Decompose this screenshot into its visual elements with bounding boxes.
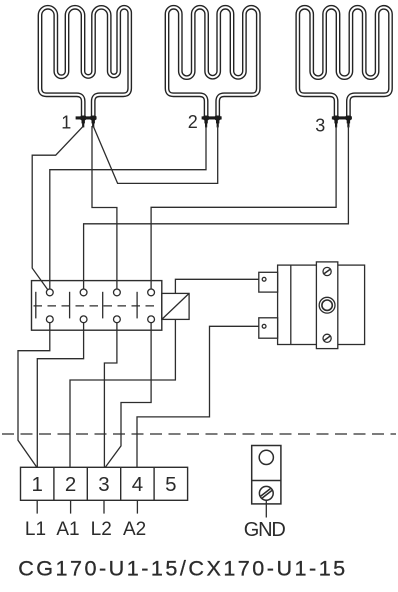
svg-text:2: 2 [65, 473, 76, 496]
svg-text:1: 1 [61, 112, 71, 132]
contactor coil [162, 293, 189, 319]
svg-text:2: 2 [188, 112, 198, 132]
ground leader line [265, 500, 267, 517]
svg-text:L2: L2 [91, 519, 112, 540]
contactor bottom terminal B3 [114, 316, 121, 323]
wire: contactor B3 to terminal 3 (L2) [104, 323, 117, 468]
contact bar pole 2 [69, 292, 71, 319]
heating element 2 [167, 7, 258, 119]
thermostat top screw [323, 267, 331, 275]
contactor K1 body [32, 281, 162, 331]
thermostat terminal tab 2 [259, 318, 278, 338]
wire net C: element 1 right pin to element 2 right pin [93, 126, 218, 183]
wire net B: contactor T1 up to element 2 left pin [50, 126, 206, 289]
contactor top terminal T1 [46, 289, 53, 296]
svg-text:3: 3 [315, 116, 325, 136]
contactor top terminal T2 [80, 289, 87, 296]
dashed panel separator line [2, 433, 396, 435]
thermostat body [278, 265, 365, 344]
thermostat bottom screw [323, 334, 331, 342]
svg-text:L1: L1 [25, 519, 46, 540]
contactor bottom terminal B4 [148, 316, 155, 323]
ground terminal block [252, 446, 281, 504]
svg-text:CG170-U1-15/CX170-U1-15: CG170-U1-15/CX170-U1-15 [18, 555, 345, 580]
heating element 3 [298, 7, 391, 119]
svg-text:5: 5 [165, 473, 176, 496]
svg-text:A2: A2 [123, 519, 146, 540]
contact bar pole 1 [35, 292, 37, 319]
thermostat terminal tab 1 [259, 272, 278, 292]
heating element 1 [40, 7, 130, 119]
thermostat inner partition line [290, 265, 292, 344]
contact bar pole 4 [136, 292, 138, 319]
wire: contactor B2 to terminal 1 (L1) [37, 323, 83, 468]
terminal 1 stub [36, 500, 38, 513]
thermostat center strip [316, 262, 337, 349]
heating element 3 terminal band and pin tips [332, 116, 352, 128]
svg-text:GND: GND [244, 519, 286, 541]
contactor bottom terminal B2 [80, 316, 87, 323]
thermostat capillary nut [319, 297, 335, 313]
svg-text:4: 4 [132, 473, 143, 496]
heating element 1 terminal band and pin tips [76, 116, 96, 128]
wire: coil top to thermostat tab 1 [175, 279, 258, 293]
ground screw [259, 486, 273, 500]
svg-text:A1: A1 [56, 519, 79, 540]
wire net D: element 1 right pin down to contactor T3 [92, 126, 117, 289]
contactor top terminal T3 [114, 289, 121, 296]
wire net F: contactor T4 up and right to element 3 left pin [151, 126, 336, 289]
contactor top terminal T4 [148, 289, 155, 296]
heating element 2 terminal band and pin tips [202, 116, 222, 128]
terminal 4 stub [136, 500, 138, 513]
terminal block [21, 467, 188, 500]
terminal 3 stub [103, 500, 105, 513]
terminal 2 stub [70, 500, 72, 513]
wire net E: contactor T2 up and right to element 3 right pin [84, 126, 349, 289]
contactor bottom terminal B1 [46, 316, 53, 323]
svg-text:3: 3 [98, 473, 109, 496]
mechanical linkage dashed line [34, 305, 159, 307]
wire: contactor B1 to terminal 1 (L1) [18, 323, 50, 468]
svg-text:1: 1 [31, 473, 42, 496]
wire: contactor B4 to terminal 3 (L2) [105, 323, 151, 468]
wire net A: element 1 left pin to contactor T1 [32, 126, 83, 290]
wire: thermostat tab 2 to terminal 4 (A2) [137, 326, 259, 467]
wire: coil bottom to terminal 2 (A1) [70, 319, 175, 467]
contact bar pole 3 [102, 292, 104, 319]
